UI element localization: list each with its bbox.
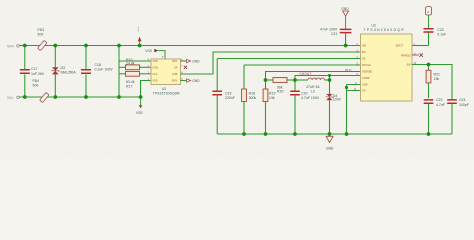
svg-text:C17: C17 [31,67,37,71]
junction dots bottom-left rail [23,95,143,99]
svg-text:SMLJ50A: SMLJ50A [61,70,77,74]
ground symbol GND top (C21) [341,7,349,29]
ground symbol GND mid [326,134,334,150]
wire top rail [20,45,361,47]
svg-text:500: 500 [38,32,44,36]
svg-text:GND: GND [192,60,200,64]
svg-text:R19: R19 [269,91,275,95]
svg-text:VIN: VIN [362,45,366,48]
capacitor C22 [424,28,447,45]
svg-text:BOOT: BOOT [396,45,404,48]
svg-text:TPS5N2860DQR: TPS5N2860DQR [364,28,406,32]
svg-text:R20: R20 [277,90,283,94]
svg-text:VIN+: VIN+ [7,45,15,49]
svg-text:C19: C19 [225,91,231,95]
wire to R17 [119,73,126,75]
svg-text:0.1uF 100V: 0.1uF 100V [95,67,114,71]
op-amp U2 TPS25730 body [148,58,184,95]
svg-text:C24: C24 [459,98,465,102]
wire riser SW node to CHOUT line [329,76,331,81]
svg-text:FB 10: FB 10 [345,69,352,72]
supply flag 24V on rail [138,27,142,46]
junction dots output row [264,74,332,82]
svg-text:C23: C23 [436,98,442,102]
ferrite bead FB3 [38,28,48,50]
junction dots right column [345,63,430,89]
wire U3 GND pins to rail [347,85,361,135]
inductor L2 [306,78,330,94]
svg-text:100V: 100V [333,98,342,102]
svg-text:UP: UP [174,67,178,70]
capacitor C19 with wire to SS line [212,59,360,135]
svg-text:13k: 13k [269,96,275,100]
svg-text:R17: R17 [126,84,132,88]
wire VSENSE line [266,72,361,81]
svg-text:13k: 13k [434,77,440,81]
svg-text:COMP: COMP [362,77,370,80]
svg-text:PWRGD: PWRGD [401,55,411,58]
svg-text:GND: GND [341,7,349,11]
svg-text:R21: R21 [434,72,440,76]
svg-text:VIN-: VIN- [7,96,14,100]
svg-text:C18: C18 [95,63,101,67]
wire middle bottom rail [217,133,452,135]
svg-text:300k: 300k [249,96,257,100]
svg-text:1uF 26V: 1uF 26V [31,72,45,76]
TVS diode D3 [52,46,76,98]
wire VBUS vertical [118,46,120,98]
resistor R18 with wire to RT line [242,65,361,134]
ferrite bead FB4 [33,79,50,102]
svg-text:47uF 100V: 47uF 100V [320,28,338,32]
op-amp U3 TPS5N2860DQR body [354,23,417,101]
no-connect X U3 PWRGD [412,54,419,56]
svg-text:SS: SS [362,58,366,61]
wire U2 VSS pin to bottom rail [141,81,152,98]
wire SW junction down to R21 [428,65,430,71]
capacitor C18 [81,46,113,98]
svg-text:CON: CON [153,67,159,70]
grid dots [0,0,474,155]
wire to R10 [119,66,126,68]
capacitor C23 [424,98,445,134]
svg-text:VSS: VSS [153,80,158,83]
capacitor C17 [20,46,45,98]
svg-text:L2: L2 [311,90,315,94]
svg-text:220nF: 220nF [225,96,235,100]
svg-text:0.1uF: 0.1uF [437,33,446,37]
svg-text:R18: R18 [249,91,255,95]
svg-text:C20: C20 [301,91,307,95]
svg-text:500: 500 [33,83,39,87]
wire to U2 VDD [119,60,151,62]
svg-text:BYN: BYN [172,80,177,83]
svg-text:VSS: VSS [136,111,143,115]
svg-text:VSENSE: VSENSE [362,71,372,74]
svg-text:47uH 3A: 47uH 3A [306,85,320,89]
svg-text:U3: U3 [372,23,376,27]
junction dots middle bottom rail [242,132,430,136]
GND flag U2 pin BYN [181,79,201,83]
svg-text:CUB: CUB [172,73,178,76]
power flag VSS below rail [136,97,143,115]
svg-text:RT/CLK: RT/CLK [362,64,371,67]
svg-text:VDD: VDD [153,60,158,63]
resistor R21 [426,70,440,98]
svg-text:CP: CP [362,90,366,93]
resistor R20 [266,78,296,94]
resistor R17 [126,71,152,88]
resistor R10 [126,58,152,70]
diode D4 [326,80,341,134]
svg-text:GND: GND [192,79,200,83]
capacitor C24 [447,98,469,134]
capacitor C20 [290,80,320,134]
svg-text:C21: C21 [331,32,337,36]
svg-text:APD: APD [172,60,177,63]
svg-text:EN: EN [362,51,366,54]
GND flag U2 pin APD [181,59,201,63]
wire bottom-left rail [20,96,141,98]
svg-text:CLA: CLA [153,73,158,76]
svg-text:GND: GND [362,84,368,87]
wire U3 SW to C24 [412,65,452,100]
supply flag VSS at U2 top [145,49,165,59]
svg-text:CHOUT: CHOUT [300,72,312,76]
no-connect X U2 pin UP [184,66,187,69]
wire U2 CUB to U3 EN [181,52,361,74]
svg-text:2: 2 [427,10,429,14]
junction dots top rail [23,44,348,48]
wire output row [295,79,308,81]
svg-text:D3: D3 [61,66,66,70]
svg-text:4.7nF: 4.7nF [436,103,445,107]
wire riser and CHOUT line to U3 [295,76,361,81]
port flag top right [426,7,432,29]
svg-text:TPS25730DQAR: TPS25730DQAR [153,91,180,95]
wire U3 BOOT [412,45,417,47]
svg-text:GND: GND [326,146,334,150]
svg-text:C22: C22 [437,28,443,32]
svg-text:4.7uF 100V: 4.7uF 100V [301,96,320,100]
svg-text:SW: SW [406,64,411,67]
svg-text:100pF: 100pF [459,103,469,107]
capacitor C21 [320,28,351,46]
resistor R19 [263,80,275,134]
svg-text:VSS: VSS [145,49,152,53]
